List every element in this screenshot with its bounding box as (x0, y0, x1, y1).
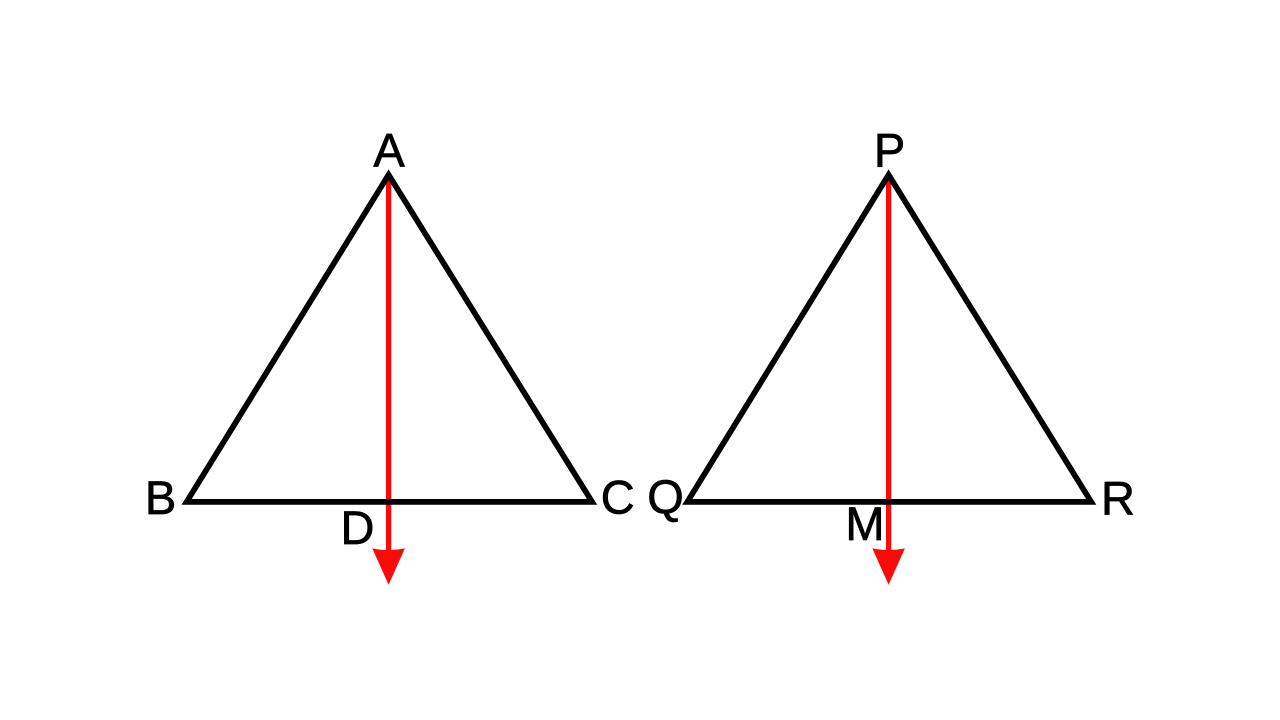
svg-text:Q: Q (647, 470, 684, 523)
svg-text:C: C (601, 471, 635, 524)
svg-text:D: D (341, 501, 375, 554)
svg-text:M: M (845, 497, 884, 550)
triangle PQR (687, 175, 1091, 502)
svg-text:B: B (145, 471, 176, 524)
triangle ABC (187, 175, 592, 502)
svg-text:R: R (1101, 472, 1135, 525)
median arrow PM (red) (872, 175, 905, 585)
svg-text:A: A (373, 124, 405, 177)
svg-text:P: P (874, 124, 905, 177)
median arrow AD (red) (372, 175, 405, 585)
